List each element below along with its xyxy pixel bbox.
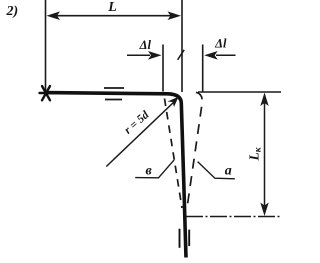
svg-text:а: а (225, 163, 232, 178)
svg-text:Lк: Lк (247, 146, 264, 161)
svg-text:Δl: Δl (214, 37, 227, 51)
svg-text:2): 2) (6, 4, 19, 19)
svg-text:Δl: Δl (139, 38, 152, 52)
svg-text:в: в (145, 164, 152, 179)
svg-text:L: L (107, 0, 117, 15)
svg-text:r = 5d: r = 5d (122, 109, 151, 137)
